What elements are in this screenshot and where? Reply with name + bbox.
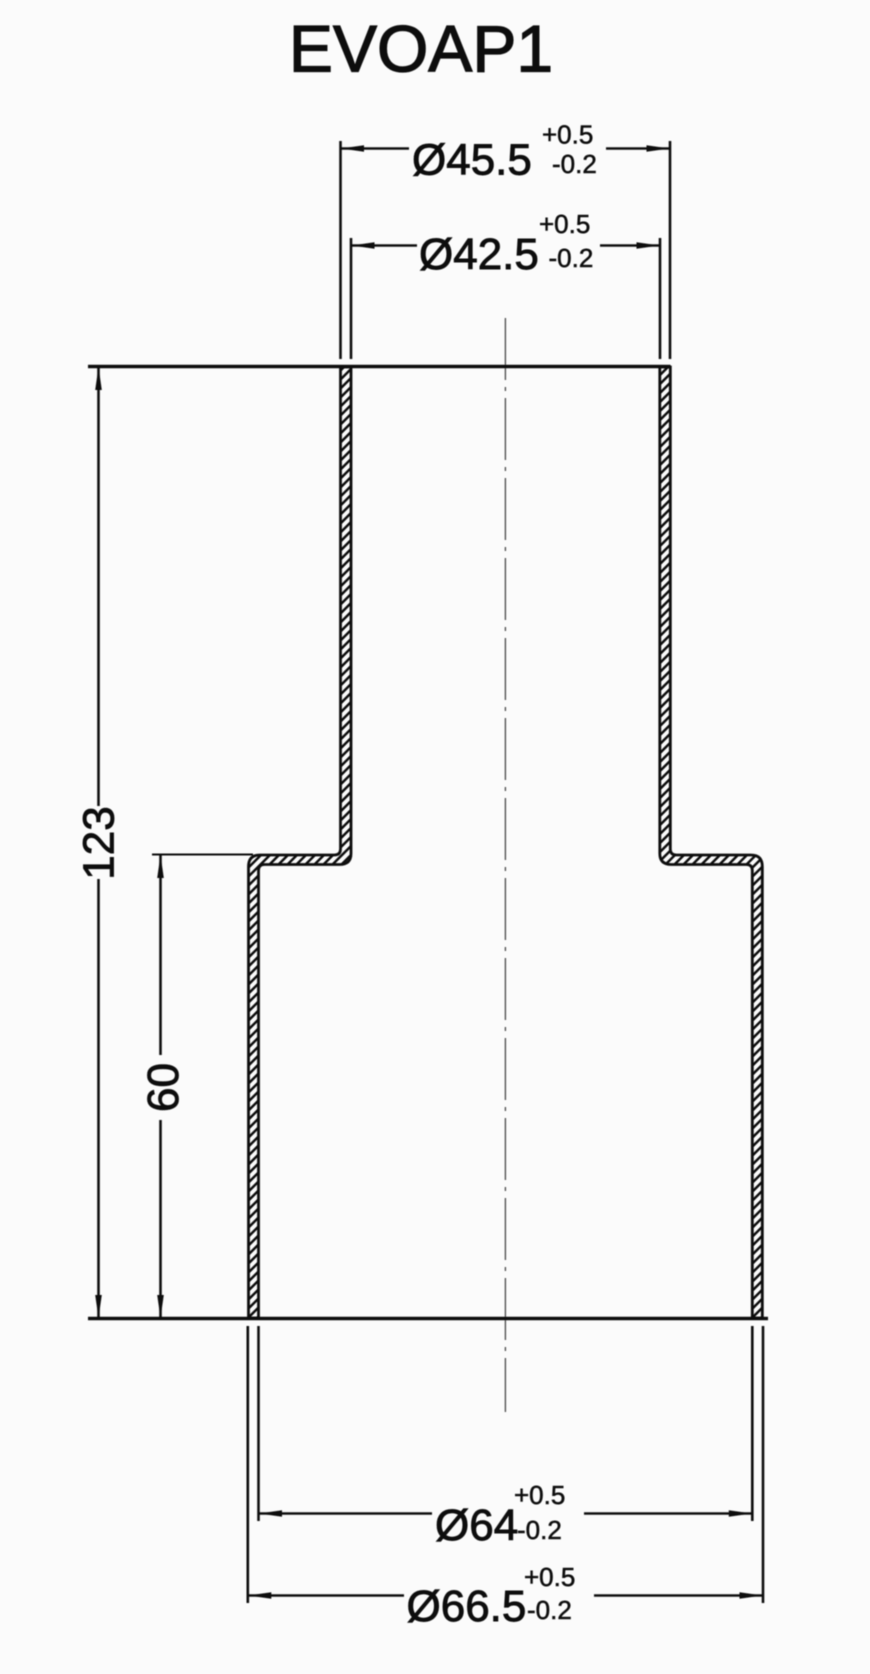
svg-text:-0.2: -0.2 <box>527 1595 572 1625</box>
svg-text:+0.5: +0.5 <box>542 120 593 150</box>
svg-text:Ø66.5: Ø66.5 <box>407 1582 527 1631</box>
svg-text:60: 60 <box>139 1063 188 1112</box>
svg-text:-0.2: -0.2 <box>552 149 597 179</box>
svg-text:+0.5: +0.5 <box>524 1562 575 1592</box>
svg-text:123: 123 <box>75 806 124 879</box>
svg-text:Ø64: Ø64 <box>435 1501 518 1550</box>
svg-text:+0.5: +0.5 <box>514 1480 565 1510</box>
svg-text:-0.2: -0.2 <box>517 1515 562 1545</box>
svg-text:Ø42.5: Ø42.5 <box>419 230 539 279</box>
svg-text:-0.2: -0.2 <box>549 243 594 273</box>
svg-text:+0.5: +0.5 <box>539 209 590 239</box>
svg-text:EVOAP1: EVOAP1 <box>289 12 553 86</box>
svg-text:Ø45.5: Ø45.5 <box>412 136 532 185</box>
